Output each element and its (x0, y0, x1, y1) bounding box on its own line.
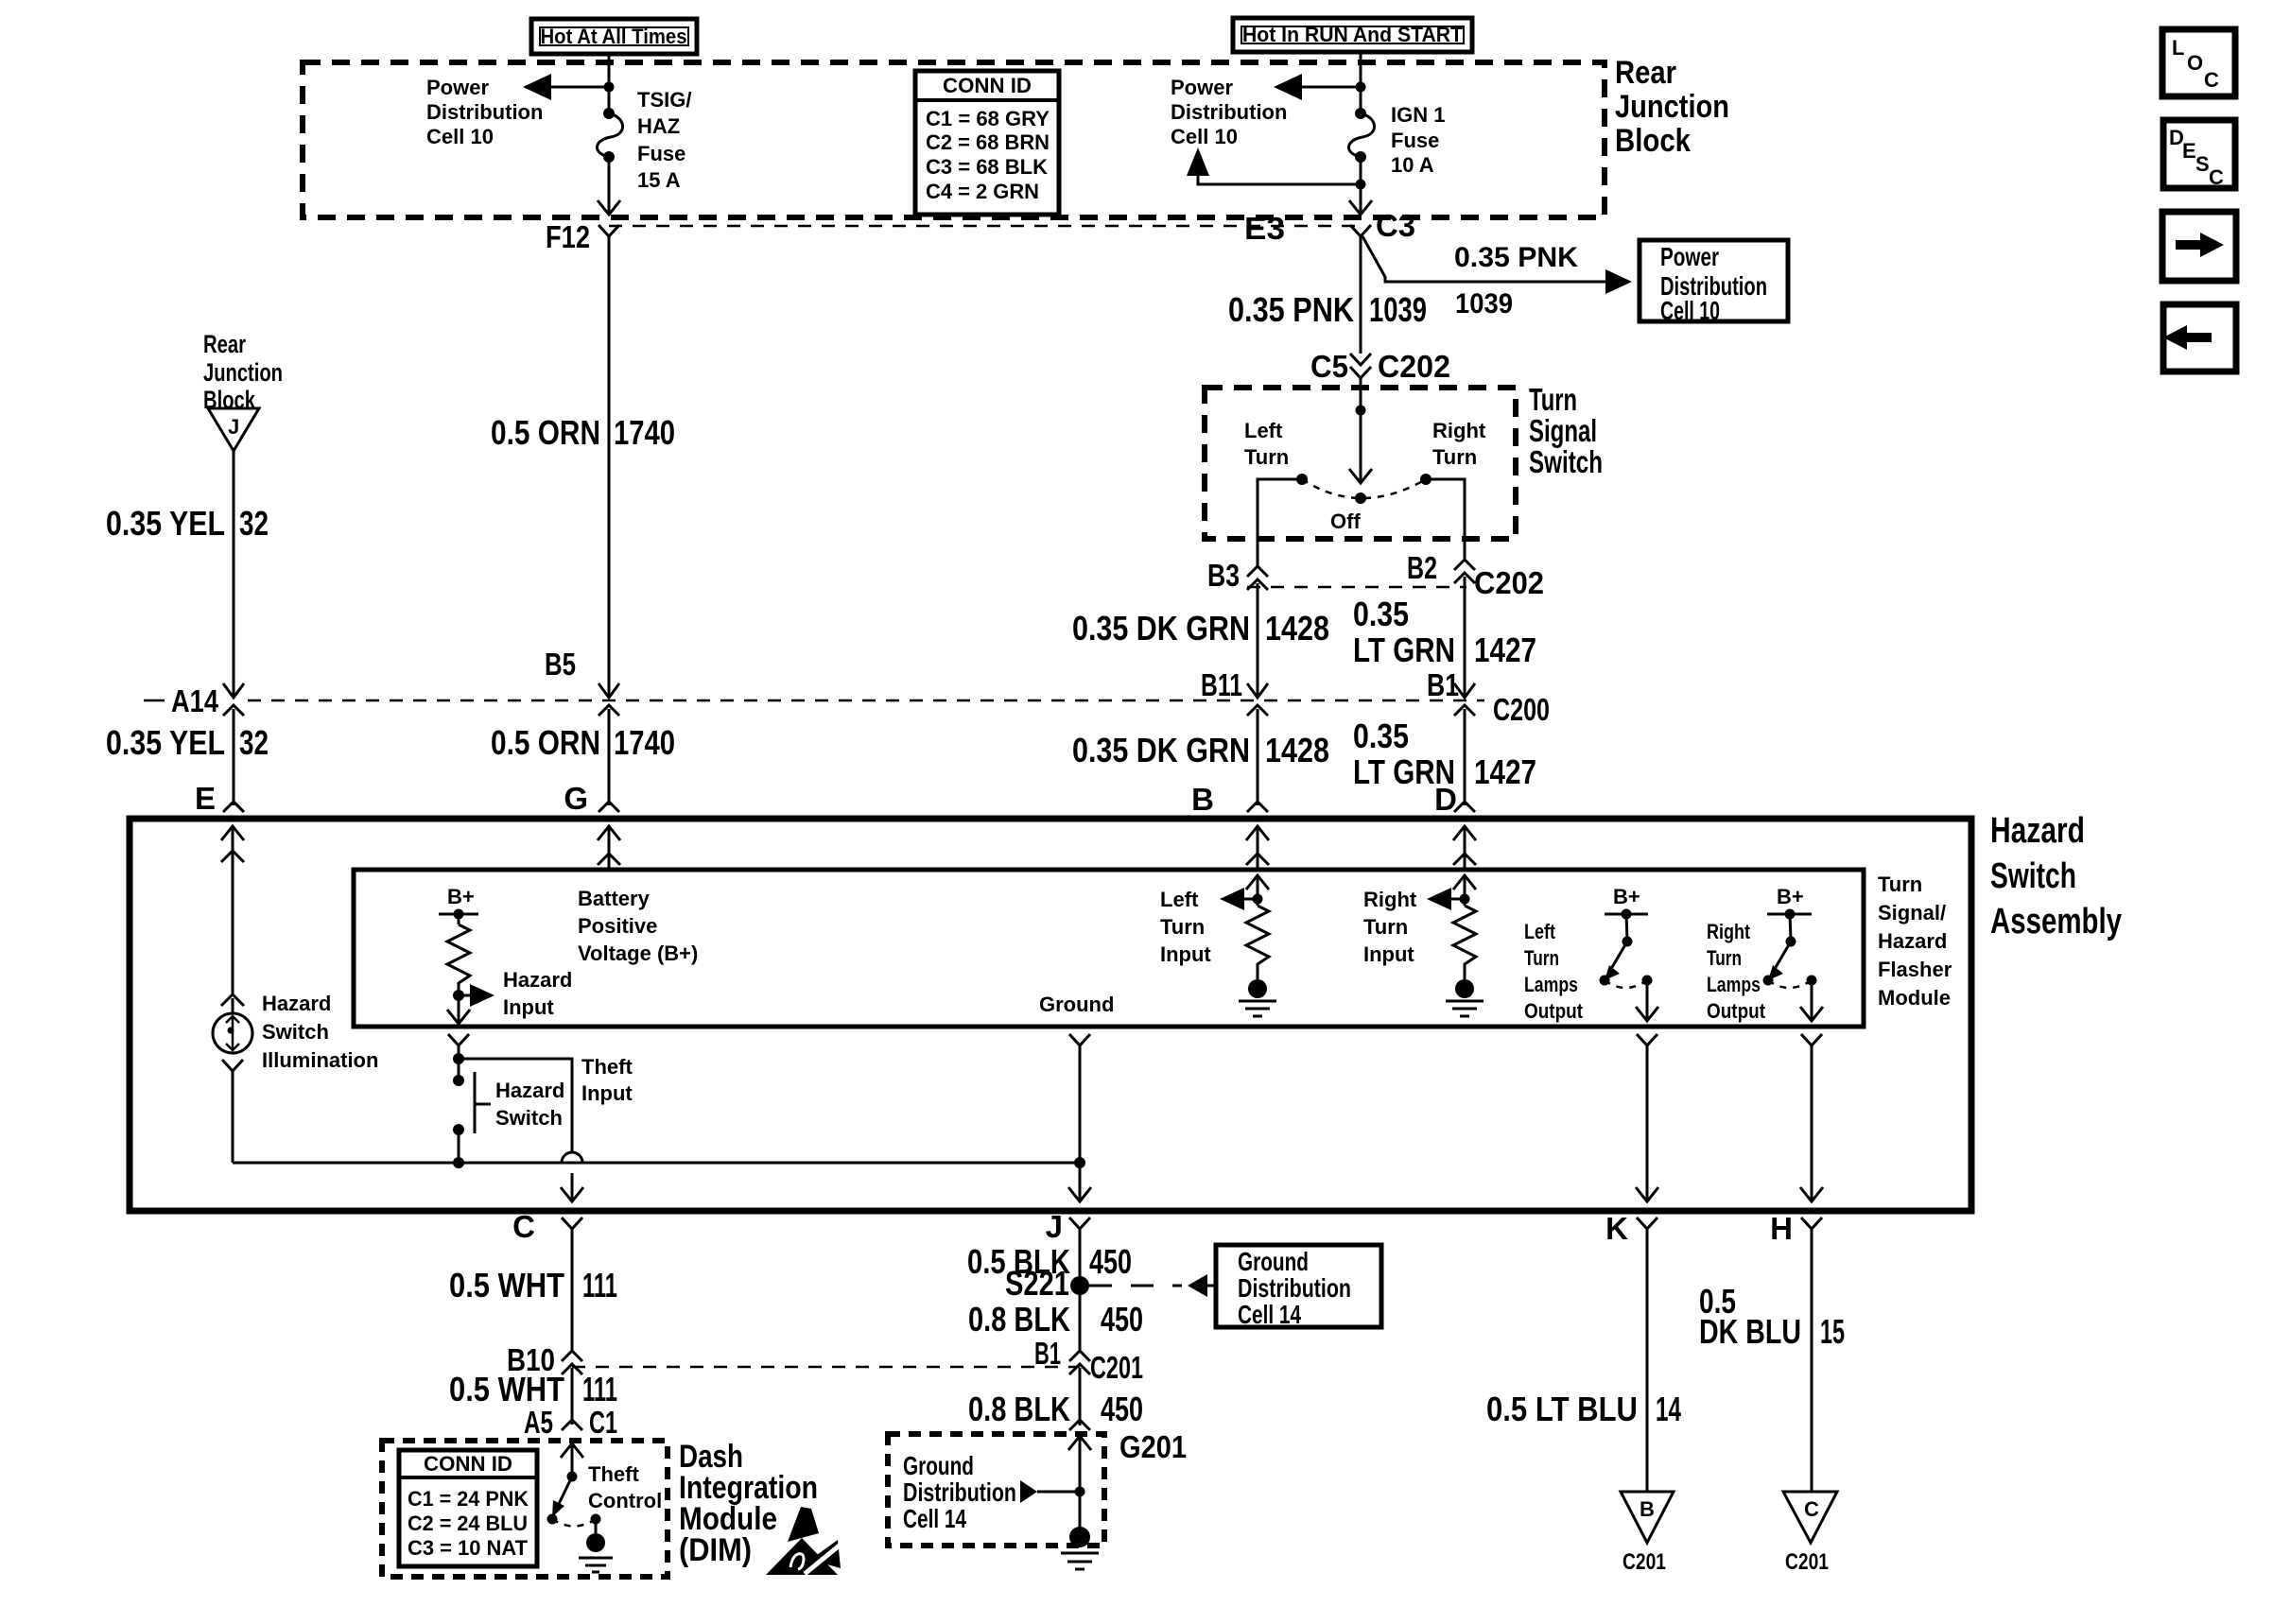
svg-text:C201: C201 (1622, 1549, 1666, 1575)
svg-text:K: K (1605, 1211, 1628, 1246)
svg-text:Flasher: Flasher (1878, 958, 1952, 981)
wire: turn signal switch common (1349, 388, 1372, 483)
wire into ground G201 (1068, 1436, 1091, 1531)
label Rear Junction Block (left) (203, 330, 283, 414)
svg-text:Turn: Turn (1707, 946, 1742, 970)
svg-text:Left: Left (1160, 888, 1199, 911)
svg-text:B: B (1640, 1497, 1655, 1521)
node B+ (left turn lamps) (1605, 885, 1648, 920)
connector B5 (545, 647, 619, 721)
off-page triangle C (1783, 1492, 1837, 1575)
branch arrow up to power distribution (1187, 147, 1361, 184)
wire: left lamps output to K (1636, 1034, 1658, 1201)
svg-text:S: S (2195, 152, 2210, 176)
svg-text:B5: B5 (545, 647, 576, 682)
svg-text:DK BLU: DK BLU (1699, 1312, 1801, 1351)
right turn lamps relay switch (1763, 914, 1817, 988)
svg-text:C201: C201 (1785, 1549, 1829, 1575)
wire branch C3 to power distribution cell 10 (1362, 236, 1632, 294)
wire internal ground bus (233, 1157, 1085, 1168)
svg-text:1427: 1427 (1474, 631, 1536, 669)
node hazard input junction arrow (453, 984, 495, 1007)
Hazard Switch Assembly box (130, 819, 1971, 1211)
svg-text:Ground: Ground (1039, 993, 1114, 1016)
svg-text:Battery: Battery (578, 887, 651, 910)
wire: right lamps output to edge (1800, 980, 1823, 1021)
svg-text:C1 = 68 GRY: C1 = 68 GRY (926, 107, 1050, 130)
connector E (195, 781, 244, 816)
pin B entry arrow (1246, 826, 1269, 870)
svg-text:0.35 YEL: 0.35 YEL (106, 723, 225, 762)
svg-text:Output: Output (1707, 999, 1766, 1023)
pin G entry arrow (598, 826, 620, 870)
svg-text:H: H (1770, 1211, 1793, 1246)
connector A14 (171, 683, 244, 721)
label Power Distribution Cell 10 (left) (426, 76, 543, 148)
svg-text:Theft: Theft (581, 1055, 633, 1079)
connector line C1 thin dashed (F12 to E3) (609, 225, 1362, 228)
svg-text:Junction: Junction (203, 358, 283, 387)
wire: B3 to B11 (1257, 591, 1259, 698)
svg-text:1740: 1740 (614, 413, 675, 452)
svg-text:Cell 10: Cell 10 (426, 125, 494, 148)
arrow to Power Distribution cell 10 (right) (1274, 74, 1361, 100)
svg-text:Ground: Ground (1238, 1247, 1309, 1276)
wire: right turn contact to B2 (1426, 479, 1465, 561)
svg-text:Turn: Turn (1363, 915, 1408, 939)
svg-text:Rear: Rear (203, 330, 246, 358)
hazard switch pushbutton (453, 1059, 491, 1163)
svg-text:450: 450 (1089, 1242, 1132, 1281)
node B+ (right turn lamps) (1767, 885, 1812, 920)
svg-text:O: O (2187, 51, 2203, 75)
wire: fuse output down to F12 (598, 157, 620, 215)
wire: IGN1 fuse output tee (1349, 157, 1372, 215)
connector B3 (1207, 558, 1268, 596)
svg-text:0.35: 0.35 (1353, 595, 1409, 633)
connector B10 (507, 1342, 582, 1380)
wire theft input to C output (459, 1059, 583, 1201)
ground G201 symbol (1061, 1527, 1099, 1569)
svg-text:Turn: Turn (1878, 872, 1922, 896)
sidebar DESC box (2163, 120, 2235, 189)
svg-text:Positive: Positive (578, 914, 657, 938)
sidebar back arrow box (2163, 304, 2236, 371)
svg-text:LT GRN: LT GRN (1353, 631, 1455, 669)
svg-text:Switch: Switch (1990, 856, 2076, 896)
svg-text:Fuse: Fuse (1391, 129, 1439, 152)
label box "Hot In RUN And START" (1233, 18, 1472, 52)
svg-text:450: 450 (1101, 1300, 1143, 1339)
ESD sensitive device symbol (766, 1507, 842, 1575)
svg-text:Turn: Turn (1529, 382, 1577, 417)
label box "Hot At All Times" (531, 19, 697, 54)
svg-text:G: G (564, 781, 588, 816)
connector E3 / C3 (1244, 208, 1415, 246)
fuse IGN 1 10A (1348, 108, 1374, 163)
svg-text:Theft: Theft (588, 1462, 639, 1486)
CONN ID table (DIM) (399, 1450, 537, 1566)
svg-text:CONN ID: CONN ID (943, 74, 1032, 97)
svg-text:Left: Left (1244, 419, 1283, 442)
svg-text:14: 14 (1656, 1390, 1681, 1428)
wire: B2 to B1 (1464, 584, 1466, 698)
Ground Distribution Cell 14 box (solid) (1216, 1245, 1381, 1329)
svg-text:Right: Right (1707, 920, 1751, 943)
connector A5 / C1 (524, 1405, 617, 1440)
svg-text:111: 111 (582, 1370, 617, 1408)
Dash Integration Module dashed box (382, 1441, 668, 1577)
svg-text:F12: F12 (546, 219, 590, 254)
svg-text:C1 = 24 PNK: C1 = 24 PNK (408, 1487, 529, 1511)
label Rear Junction Block (top right) (1615, 55, 1729, 159)
wire: B1 to G201 (1079, 1374, 1082, 1415)
svg-text:B+: B+ (447, 885, 475, 908)
svg-text:Power: Power (426, 76, 489, 99)
connector below hazard input (448, 1034, 469, 1061)
svg-text:Hot At All Times: Hot At All Times (541, 25, 687, 48)
svg-text:Junction: Junction (1615, 89, 1729, 125)
svg-text:Cell 10: Cell 10 (1660, 296, 1720, 325)
splice S221 (1005, 1264, 1089, 1303)
svg-text:32: 32 (239, 504, 269, 543)
svg-text:Input: Input (1363, 942, 1414, 966)
wire: ground output to J (1068, 1034, 1091, 1201)
connector F12 (546, 219, 619, 254)
svg-text:Distribution: Distribution (903, 1477, 1016, 1507)
svg-text:Left: Left (1524, 920, 1556, 943)
svg-text:Turn: Turn (1524, 946, 1559, 970)
wire: C3 down to C5 (1360, 236, 1362, 354)
svg-text:0.8 BLK: 0.8 BLK (968, 1390, 1070, 1428)
sidebar forward arrow box (2162, 212, 2236, 281)
svg-text:B3: B3 (1207, 558, 1240, 593)
svg-text:0.5 WHT: 0.5 WHT (449, 1370, 564, 1408)
fuse TSIG/HAZ 15A (597, 108, 622, 163)
svg-text:B: B (1191, 782, 1214, 817)
off-page triangle B (1621, 1492, 1674, 1575)
dashed reference to ground distribution cell 14 (1089, 1274, 1218, 1297)
label Ground Distribution Cell 14 (G201) (903, 1451, 1016, 1533)
CONN ID table (rear junction block) (915, 71, 1059, 215)
label Turn Signal/Hazard Flasher Module (1878, 872, 1952, 1010)
ground (left turn input) (1239, 979, 1276, 1016)
svg-text:Hazard: Hazard (495, 1079, 564, 1102)
wire: battery feed to TSIG/HAZ fuse (604, 52, 615, 112)
pin E entry arrow (221, 826, 244, 996)
label Hazard Switch Assembly (1990, 811, 2122, 942)
ground (right turn input) (1446, 979, 1484, 1016)
label Right Turn Input (1363, 888, 1417, 966)
svg-text:Right: Right (1432, 419, 1486, 442)
Rear Junction Block dashed box (303, 62, 1605, 217)
svg-text:32: 32 (239, 723, 269, 762)
svg-text:Hazard: Hazard (503, 968, 572, 992)
label Left Turn Input (1160, 888, 1211, 966)
svg-text:Signal/: Signal/ (1878, 901, 1946, 924)
svg-text:0.5 WHT: 0.5 WHT (449, 1266, 564, 1304)
wire: A14 to E (233, 716, 235, 790)
svg-text:B+: B+ (1613, 885, 1640, 908)
svg-text:B1: B1 (1034, 1336, 1061, 1371)
svg-text:Hazard: Hazard (1990, 811, 2085, 851)
Turn Signal/Hazard Flasher Module box (354, 870, 1864, 1027)
svg-text:1740: 1740 (614, 723, 675, 762)
label Hazard Switch Illumination (262, 992, 378, 1072)
svg-text:Module: Module (1878, 986, 1951, 1010)
theft control switch (DIM) (547, 1443, 601, 1533)
svg-text:0.35 YEL: 0.35 YEL (106, 504, 225, 543)
connector K (below assembly) (1605, 1211, 1657, 1492)
label Hazard Switch (495, 1079, 564, 1130)
svg-text:450: 450 (1101, 1390, 1143, 1428)
svg-text:E: E (195, 781, 216, 816)
wire: J down to A14 (233, 451, 235, 698)
svg-text:Off: Off (1330, 510, 1361, 533)
svg-text:0.5 LT BLU: 0.5 LT BLU (1486, 1390, 1638, 1428)
wire: left turn contact to B3 (1258, 479, 1302, 568)
svg-text:B1: B1 (1427, 667, 1459, 702)
arrow to Power Distribution cell 10 (left) (523, 74, 609, 100)
svg-text:Hazard: Hazard (1878, 929, 1947, 953)
svg-text:Distribution: Distribution (426, 100, 543, 124)
label Power Distribution Cell 10 (right) (1171, 76, 1287, 148)
connector J (below assembly) (1046, 1209, 1090, 1350)
wire: right lamps output to H (1800, 1034, 1823, 1201)
connector B1 (1427, 667, 1550, 727)
svg-text:0.5 ORN: 0.5 ORN (491, 723, 600, 762)
svg-text:C3: C3 (1376, 208, 1415, 243)
label Left Turn (1244, 419, 1289, 469)
svg-text:IGN 1: IGN 1 (1391, 103, 1445, 127)
svg-text:0.5 ORN: 0.5 ORN (491, 413, 600, 452)
right turn input resistor (1427, 875, 1476, 979)
svg-text:1428: 1428 (1265, 609, 1329, 648)
switch contacts with off position (1296, 474, 1431, 504)
wire: F12 down to B5 (608, 246, 611, 698)
svg-text:Cell 14: Cell 14 (903, 1504, 966, 1533)
label Battery Positive Voltage (B+) (578, 887, 698, 965)
svg-text:C2 = 24 BLU: C2 = 24 BLU (408, 1512, 528, 1535)
node B+ battery positive (439, 885, 478, 924)
svg-text:111: 111 (582, 1266, 617, 1304)
svg-text:Ground: Ground (903, 1451, 974, 1480)
svg-text:1039: 1039 (1455, 288, 1513, 320)
svg-text:0.35: 0.35 (1353, 717, 1409, 755)
svg-text:Assembly: Assembly (1990, 902, 2122, 942)
svg-text:B11: B11 (1201, 667, 1242, 702)
svg-text:G201: G201 (1119, 1429, 1187, 1464)
wire label 0.5 DK BLU (1699, 1282, 1801, 1351)
label Theft Control (588, 1462, 662, 1512)
ground distribution dashed box G201 (888, 1434, 1104, 1546)
svg-text:CONN ID: CONN ID (424, 1452, 512, 1476)
svg-text:Distribution: Distribution (1171, 100, 1287, 124)
svg-text:TSIG/: TSIG/ (637, 88, 691, 112)
sidebar LOC box (2162, 29, 2235, 96)
svg-text:Distribution: Distribution (1238, 1273, 1351, 1303)
svg-text:C4 = 2 GRN: C4 = 2 GRN (926, 180, 1039, 203)
svg-text:Fuse: Fuse (637, 142, 685, 165)
label Turn Signal Switch (1529, 382, 1603, 479)
svg-text:C2 = 68 BRN: C2 = 68 BRN (926, 130, 1050, 154)
svg-text:Power: Power (1171, 76, 1233, 99)
label Right Turn (1432, 419, 1486, 469)
wire: left lamps output to edge (1636, 980, 1658, 1021)
node theft tap junction (453, 1053, 464, 1064)
svg-text:Input: Input (503, 995, 554, 1019)
connector B2 (1407, 550, 1544, 600)
svg-text:Hazard: Hazard (262, 992, 331, 1015)
hazard switch illumination lamp (213, 994, 252, 1053)
svg-text:Lamps: Lamps (1524, 973, 1578, 996)
svg-text:C1: C1 (589, 1405, 617, 1440)
svg-text:Power: Power (1660, 242, 1719, 271)
svg-text:Control: Control (588, 1489, 662, 1512)
svg-text:(DIM): (DIM) (679, 1532, 752, 1568)
svg-text:Switch: Switch (1529, 444, 1603, 479)
label Right Turn Lamps Output (1707, 920, 1766, 1023)
svg-text:B+: B+ (1777, 885, 1804, 908)
resistor hazard input pull-up (447, 924, 470, 990)
Turn Signal Switch dashed box (1205, 388, 1516, 539)
svg-text:0.35 DK GRN: 0.35 DK GRN (1072, 731, 1250, 769)
connector below illumination lamp (222, 1060, 243, 1163)
connector B1 / C201 (1034, 1336, 1143, 1385)
label TSIG/HAZ Fuse 15 A (637, 88, 691, 192)
connector C (below assembly) (512, 1209, 582, 1350)
svg-text:Voltage (B+): Voltage (B+) (578, 942, 698, 965)
connector at G201 (1069, 1415, 1090, 1430)
wire: ignition feed to IGN 1 fuse (1356, 50, 1366, 112)
svg-text:Switch: Switch (495, 1106, 563, 1130)
ground (theft control) (579, 1533, 613, 1572)
svg-text:Cell 14: Cell 14 (1238, 1300, 1301, 1329)
svg-text:Turn: Turn (1160, 915, 1205, 939)
wire: B10 to A5 (571, 1374, 574, 1414)
svg-text:15 A: 15 A (637, 168, 681, 192)
svg-text:Input: Input (1160, 942, 1211, 966)
label Dash Integration Module (DIM) (679, 1439, 818, 1568)
svg-text:Turn: Turn (1432, 445, 1477, 469)
svg-text:C200: C200 (1493, 692, 1550, 727)
connector line C202 (thin dashed) (1247, 586, 1466, 589)
svg-text:1428: 1428 (1265, 731, 1329, 769)
label Hazard Input (503, 968, 572, 1019)
svg-text:J: J (228, 415, 239, 439)
svg-text:0.35 PNK: 0.35 PNK (1454, 242, 1578, 273)
svg-text:B2: B2 (1407, 550, 1437, 585)
wire label 0.35 LT GRN (1353, 595, 1455, 669)
svg-text:0.8 BLK: 0.8 BLK (968, 1300, 1070, 1339)
connector line C201 (thin dashed) (572, 1366, 1080, 1369)
svg-text:C3 = 10 NAT: C3 = 10 NAT (408, 1536, 529, 1560)
junction block triangle J (208, 408, 259, 451)
svg-text:Hot In RUN And START: Hot In RUN And START (1242, 23, 1464, 46)
svg-text:Turn: Turn (1244, 445, 1289, 469)
svg-text:0.35 DK GRN: 0.35 DK GRN (1072, 609, 1250, 648)
svg-text:Block: Block (1615, 123, 1691, 159)
svg-text:1039: 1039 (1369, 290, 1427, 329)
svg-text:C5: C5 (1310, 349, 1348, 384)
svg-text:Switch: Switch (262, 1020, 329, 1044)
wire label 0.35 LT GRN (lower) (1353, 717, 1455, 791)
svg-text:Lamps: Lamps (1707, 973, 1761, 996)
connector line C200 (long thin dashed) (144, 700, 1484, 702)
svg-text:A14: A14 (171, 683, 219, 718)
svg-text:L: L (2172, 36, 2184, 60)
svg-text:0.35 PNK: 0.35 PNK (1228, 290, 1354, 329)
connector B (into assembly) (1191, 716, 1268, 817)
connector B11 (1201, 667, 1268, 721)
svg-text:E3: E3 (1244, 211, 1285, 246)
label Left Turn Lamps Output (1524, 920, 1584, 1023)
svg-text:A5: A5 (524, 1405, 553, 1440)
svg-text:S221: S221 (1005, 1264, 1069, 1303)
Power Distribution Cell 10 box (side) (1640, 240, 1788, 325)
label Theft Input (581, 1055, 633, 1105)
wire: hazard input to module edge (447, 995, 470, 1024)
svg-text:Cell 10: Cell 10 (1171, 125, 1238, 148)
pin D entry arrow (1453, 826, 1476, 870)
svg-text:LT GRN: LT GRN (1353, 752, 1455, 791)
svg-text:Output: Output (1524, 999, 1584, 1023)
svg-text:Illumination: Illumination (262, 1048, 378, 1072)
arrow from ground distribution label (1020, 1480, 1085, 1503)
left turn lamps relay switch (1600, 914, 1653, 988)
svg-text:10 A: 10 A (1391, 153, 1434, 177)
svg-text:C3 = 68 BLK: C3 = 68 BLK (926, 155, 1048, 179)
connector H (below assembly) (1770, 1211, 1822, 1492)
wire: B5 to G (608, 716, 611, 790)
connector G (564, 781, 619, 816)
svg-text:C: C (1804, 1497, 1819, 1521)
label IGN 1 Fuse 10 A (1391, 103, 1445, 177)
svg-text:C202: C202 (1378, 349, 1450, 384)
svg-text:C: C (2204, 68, 2219, 92)
svg-text:Right: Right (1363, 888, 1417, 911)
svg-text:C: C (512, 1209, 535, 1244)
svg-text:Input: Input (581, 1081, 633, 1105)
svg-text:15: 15 (1820, 1312, 1845, 1351)
svg-text:Rear: Rear (1615, 55, 1676, 91)
svg-text:C: C (2209, 165, 2224, 189)
svg-text:Signal: Signal (1529, 413, 1597, 448)
svg-text:J: J (1046, 1209, 1063, 1244)
svg-text:1427: 1427 (1474, 752, 1536, 791)
connector C5 / C202 (1310, 349, 1450, 389)
svg-text:C201: C201 (1090, 1350, 1143, 1385)
svg-text:HAZ: HAZ (637, 114, 680, 138)
left turn input resistor (1220, 875, 1269, 979)
connector D (into assembly) (1434, 716, 1475, 817)
svg-text:C202: C202 (1474, 565, 1544, 600)
svg-text:E: E (2182, 139, 2196, 163)
